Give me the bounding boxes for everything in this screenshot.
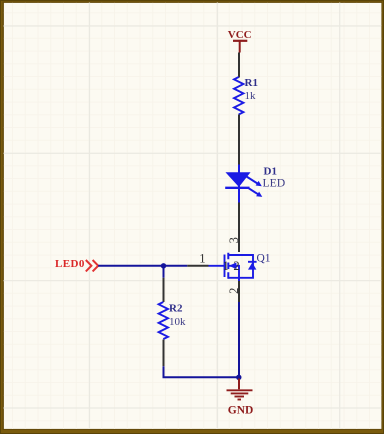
wire R2 down to GND rail <box>164 340 239 378</box>
junction node at GND <box>236 375 241 380</box>
LED D1 <box>225 165 262 203</box>
svg-text:3: 3 <box>227 237 241 243</box>
pin number 2 (source) <box>227 288 241 294</box>
label D1 value LED <box>263 176 286 189</box>
wire LED0 to junction and gate <box>98 265 208 267</box>
svg-text:VCC: VCC <box>228 29 252 41</box>
svg-text:2: 2 <box>233 259 239 273</box>
svg-text:1: 1 <box>199 252 205 266</box>
resistor R2 <box>159 302 168 339</box>
wire R1 pin 2 to D1 anode <box>238 115 240 165</box>
svg-text:10k: 10k <box>169 316 186 328</box>
wire VCC to R1 pin 1 <box>238 53 240 78</box>
svg-text:LED0: LED0 <box>55 258 85 270</box>
junction node at gate branch <box>161 263 166 268</box>
ground GND <box>227 379 254 417</box>
pin number 1 (gate) <box>199 252 205 266</box>
wire junction down to R2 <box>163 266 165 302</box>
net label LED0 <box>55 258 98 271</box>
label R2 designator <box>169 302 183 314</box>
pin number 2 inner glyph <box>233 259 239 273</box>
label R2 value 10k <box>169 316 186 328</box>
svg-text:1: 1 <box>223 259 229 273</box>
pin number 1 inner glyph <box>223 259 229 273</box>
pin number 3 (drain) <box>227 237 241 243</box>
resistor R1 <box>234 77 243 115</box>
label D1 designator <box>264 165 277 177</box>
svg-text:R2: R2 <box>169 302 183 314</box>
svg-text:R1: R1 <box>245 77 258 89</box>
power symbol VCC <box>228 29 252 53</box>
label R1 designator <box>245 77 258 89</box>
svg-text:1k: 1k <box>245 90 257 102</box>
label R1 value 1k <box>245 90 257 102</box>
svg-text:Q1: Q1 <box>257 253 271 265</box>
transistor Q1 <box>209 253 257 279</box>
svg-text:GND: GND <box>228 404 254 416</box>
wire Q1 source down to GND junction <box>238 278 240 378</box>
svg-text:LED: LED <box>263 176 286 189</box>
label Q1 designator <box>257 253 271 265</box>
wire D1 cathode to Q1 drain <box>238 203 240 253</box>
